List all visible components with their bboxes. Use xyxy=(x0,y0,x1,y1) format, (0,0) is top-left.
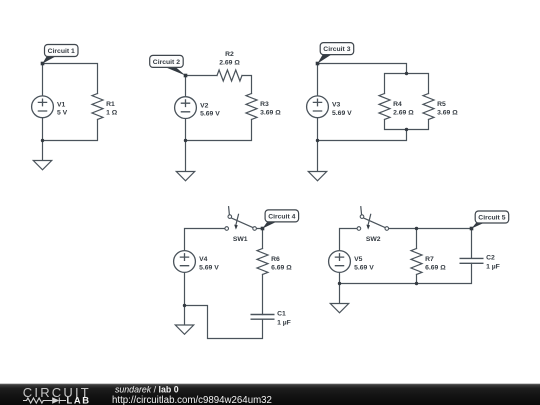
svg-text:6.69 Ω: 6.69 Ω xyxy=(271,265,292,272)
svg-text:Circuit 2: Circuit 2 xyxy=(153,59,180,66)
svg-text:V1: V1 xyxy=(57,101,66,108)
svg-text:R7: R7 xyxy=(425,256,434,263)
svg-text:2.69 Ω: 2.69 Ω xyxy=(393,110,414,117)
svg-text:5.69 V: 5.69 V xyxy=(332,110,352,117)
svg-text:5.69 V: 5.69 V xyxy=(354,265,374,272)
svg-text:5.69 V: 5.69 V xyxy=(200,111,220,118)
svg-text:5 V: 5 V xyxy=(57,110,68,117)
svg-text:SW1: SW1 xyxy=(233,236,248,243)
svg-text:3.69 Ω: 3.69 Ω xyxy=(437,110,458,117)
svg-text:V2: V2 xyxy=(200,102,209,109)
svg-text:C1: C1 xyxy=(277,311,286,318)
svg-text:http://circuitlab.com/c9894w26: http://circuitlab.com/c9894w264um32 xyxy=(112,395,272,405)
svg-text:R3: R3 xyxy=(260,101,269,108)
svg-text:Circuit 3: Circuit 3 xyxy=(323,46,350,53)
svg-text:LAB: LAB xyxy=(67,395,91,405)
svg-text:R1: R1 xyxy=(106,101,115,108)
svg-text:SW2: SW2 xyxy=(366,236,381,243)
svg-text:R4: R4 xyxy=(393,101,402,108)
svg-text:R6: R6 xyxy=(271,256,280,263)
svg-text:C2: C2 xyxy=(486,254,495,261)
svg-text:6.69 Ω: 6.69 Ω xyxy=(425,265,446,272)
svg-text:R5: R5 xyxy=(437,101,446,108)
svg-text:V5: V5 xyxy=(354,256,363,263)
svg-text:sundarek / lab 0: sundarek / lab 0 xyxy=(115,384,179,394)
svg-text:2.69 Ω: 2.69 Ω xyxy=(219,60,240,67)
svg-text:3.69 Ω: 3.69 Ω xyxy=(260,110,281,117)
svg-text:5.69 V: 5.69 V xyxy=(199,265,219,272)
svg-text:Circuit 5: Circuit 5 xyxy=(478,215,505,222)
svg-text:1 Ω: 1 Ω xyxy=(106,110,118,117)
svg-text:Circuit 4: Circuit 4 xyxy=(268,213,295,220)
svg-text:1 µF: 1 µF xyxy=(486,263,500,270)
svg-text:R2: R2 xyxy=(225,51,234,58)
svg-text:V4: V4 xyxy=(199,256,208,263)
svg-text:Circuit 1: Circuit 1 xyxy=(48,48,75,55)
svg-text:1 µF: 1 µF xyxy=(277,319,291,326)
svg-text:V3: V3 xyxy=(332,102,341,109)
